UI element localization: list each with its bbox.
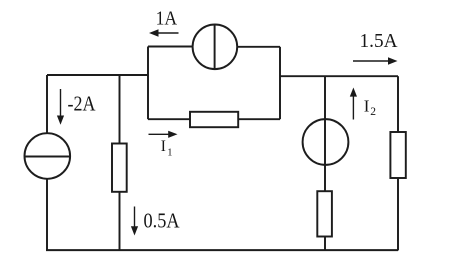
wire: right horizontal (top node to right side) (280, 75, 398, 77)
wire: right edge lower segment (397, 178, 399, 250)
svg-text:2: 2 (370, 106, 376, 118)
svg-text:1.5A: 1.5A (360, 30, 399, 52)
wire: left branch lower segment (46, 179, 48, 251)
wire: left branch upper segment (46, 75, 48, 134)
arrowhead I2 (350, 88, 357, 97)
arrow: -2A direction (down) (60, 89, 62, 118)
arrow: I2 direction (up) (352, 95, 354, 120)
arrowhead -2A (57, 116, 64, 125)
current source IS1 (left, -2A branch) (25, 133, 71, 179)
svg-text:I: I (364, 96, 370, 115)
wire: middle-left branch lower segment (119, 192, 121, 251)
wire: right-middle branch lower segment (324, 237, 326, 251)
wire: bottom rail (46, 249, 398, 251)
svg-text:-2A: -2A (68, 92, 97, 116)
arrowhead I1 (168, 131, 177, 138)
svg-text:1A: 1A (156, 8, 178, 30)
wire: right-middle branch (passes through source) (324, 76, 326, 191)
arrow: I1 direction (right) (149, 133, 171, 135)
arrowhead 1A (149, 29, 159, 36)
wire: loop bottom-left segment (148, 118, 190, 120)
arrow: 1.5A direction (right) (353, 60, 390, 62)
wire: loop bottom-right segment (238, 118, 280, 120)
arrow: 1A direction (left) (156, 32, 179, 34)
current source IS2 (top, in loop) (193, 25, 238, 70)
arrow: 0.5A direction (down) (134, 207, 136, 229)
arrowhead 0.5A (131, 226, 138, 235)
arrowhead 1.5A (388, 57, 398, 64)
svg-text:I: I (161, 138, 166, 155)
wire: middle-left branch upper segment (119, 75, 121, 144)
wire: loop top-right segment (237, 46, 280, 48)
resistor R3 (below right-middle source) (317, 191, 332, 236)
resistor R1 (middle-left vertical) (112, 144, 127, 192)
wire: top-left horizontal (node between left source and middle loop) (47, 74, 148, 76)
wire: loop left edge (147, 47, 149, 120)
resistor R2 (horizontal, in loop) (190, 112, 238, 127)
svg-text:1: 1 (167, 147, 172, 158)
wire: right edge upper segment (397, 76, 399, 132)
wire: loop right edge (279, 47, 281, 119)
svg-text:0.5A: 0.5A (144, 209, 181, 233)
wire: loop top-left segment (148, 46, 193, 48)
resistor R4 (far right) (390, 132, 405, 178)
current source IS3 (right-middle) (303, 119, 349, 165)
